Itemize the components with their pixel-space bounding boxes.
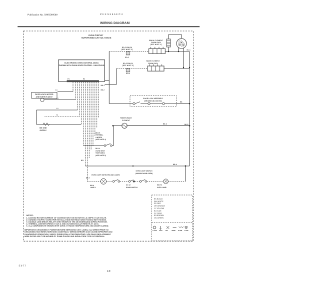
bake element label	[146, 60, 160, 65]
svg-text:WH-70: WH-70	[157, 184, 162, 187]
lamp labels below	[90, 184, 167, 190]
label OVEN CIRCUIT note	[81, 34, 111, 40]
door switch S3	[113, 180, 120, 183]
ground labels	[40, 126, 48, 131]
junction bake-bus	[189, 125, 190, 126]
svg-text:L2: L2	[57, 97, 59, 100]
svg-text:BK-2: BK-2	[101, 88, 105, 91]
svg-text:P1: P1	[68, 78, 70, 81]
svg-text:BR-8: BR-8	[173, 163, 177, 166]
svg-text:(SEE NOTE 3): (SEE NOTE 3)	[121, 48, 133, 51]
svg-text:WIRE RATED 105 C OR HIGHER OF: WIRE RATED 105 C OR HIGHER OF SAME GAUGE…	[25, 235, 106, 238]
svg-text:SUPPLY: SUPPLY	[40, 129, 48, 132]
svg-text:5. ALL COMPONENTS SHOWN WITH O: 5. ALL COMPONENTS SHOWN WITH OVEN AT ROO…	[26, 224, 109, 227]
svg-text:AND SWITCH ASSY: AND SWITCH ASSY	[36, 96, 54, 99]
svg-text:(SEE NOTE 1): (SEE NOTE 1)	[150, 43, 162, 46]
hidden bake element R3	[113, 123, 127, 128]
svg-text:Publication No. 5995599569: Publication No. 5995599569	[28, 14, 59, 17]
oven light switch label	[135, 170, 153, 175]
svg-text:E077: E077	[19, 264, 27, 267]
wire lock to bus	[176, 101, 189, 104]
svg-text:ELEM: ELEM	[178, 229, 183, 232]
wire to lamp 2	[147, 180, 163, 182]
lock motor M1	[41, 98, 45, 102]
wire from U1 right pin to node A	[105, 80, 110, 82]
wire riser node B	[116, 69, 118, 85]
svg-text:L1: L1	[56, 89, 58, 92]
wire fuse bottom	[168, 47, 170, 52]
wire fuse top to motor	[169, 35, 182, 39]
svg-text:RD-15: RD-15	[96, 131, 101, 134]
svg-text:RD-2: RD-2	[125, 56, 129, 59]
wire harness bundle from U1	[73, 82, 99, 181]
junction row2-bus	[189, 67, 190, 68]
svg-text:OVEN LIGHT SWITCH: OVEN LIGHT SWITCH	[136, 170, 153, 173]
svg-text:10: 10	[107, 269, 111, 273]
svg-text:RD-1: RD-1	[101, 84, 105, 87]
svg-text:(SHOWN UNLOCKED): (SHOWN UNLOCKED)	[144, 99, 162, 102]
legend box	[152, 195, 193, 241]
junction BR drop	[185, 165, 186, 166]
connector P1 strip of U1	[67, 80, 99, 82]
dashed diagram border	[24, 31, 194, 241]
lamp DS1	[101, 179, 107, 185]
junction motor-row2	[183, 67, 184, 68]
svg-text:WIRING DIAGRAM: WIRING DIAGRAM	[100, 21, 130, 25]
svg-text:L1: L1	[57, 107, 59, 110]
wire switch to switch	[120, 180, 129, 182]
junction lamp row	[133, 181, 134, 182]
svg-text:OVEN LIGHT SWITCHES AND LAMPS: OVEN LIGHT SWITCHES AND LAMPS	[91, 173, 119, 176]
svg-text:WIRE: WIRE	[172, 229, 176, 232]
wire to door lock	[109, 103, 130, 105]
junction lock-bus	[189, 103, 190, 104]
junction motor-row1	[178, 51, 179, 52]
legend symbol labels	[153, 229, 189, 232]
svg-text:GY-12: GY-12	[126, 184, 131, 187]
lamp DS2	[163, 179, 168, 184]
door switch S3b	[129, 180, 135, 183]
ground lug	[43, 123, 50, 126]
svg-text:SW: SW	[165, 229, 168, 232]
svg-text:BK-6: BK-6	[163, 123, 167, 126]
wire to thermal limiter	[84, 145, 105, 147]
wire riser node A	[108, 52, 110, 104]
wire lamp to switch	[106, 180, 112, 182]
svg-text:WH-9: WH-9	[90, 184, 94, 187]
wire switch to node	[135, 180, 140, 182]
svg-text:GN GREEN: GN GREEN	[154, 217, 164, 220]
svg-text:SUPERVISED 120 VOLT BAKE: SUPERVISED 120 VOLT BAKE	[81, 37, 111, 40]
legend separator	[152, 222, 193, 224]
door lock assembly dashed box	[130, 96, 176, 107]
thermal limiter labels lower	[96, 147, 107, 157]
wire lamp2 to corner	[168, 180, 185, 182]
bake element R2	[148, 64, 165, 71]
svg-text:SHOWN WITH OVEN DOOR CLOSED -: SHOWN WITH OVEN DOOR CLOSED - UNLOCKED	[59, 64, 105, 67]
junction bake node	[112, 125, 113, 126]
ground wire	[37, 124, 82, 126]
hidden bake label	[120, 117, 133, 122]
wire motor lead 1	[178, 48, 180, 52]
svg-text:LAMP: LAMP	[153, 229, 157, 232]
wire bake to bus	[127, 123, 189, 126]
junction fuse-row1	[168, 51, 169, 52]
wire BR run	[85, 165, 189, 167]
svg-text:P2: P2	[83, 77, 85, 80]
wire motor to pin 2	[44, 97, 75, 100]
svg-text:(SEE NOTE 3): (SEE NOTE 3)	[122, 64, 134, 67]
svg-text:GND: GND	[159, 229, 163, 232]
svg-text:BK: BK	[180, 101, 183, 104]
wire motor lead 2	[183, 48, 185, 69]
header rule	[18, 26, 200, 28]
notes list	[26, 217, 109, 228]
svg-text:OVEN CIRCUIT: OVEN CIRCUIT	[88, 34, 104, 37]
broil element label	[149, 39, 164, 46]
svg-text:RD-4: RD-4	[126, 72, 130, 75]
svg-text:BR-7: BR-7	[86, 177, 90, 180]
wire BR corner drop	[185, 166, 187, 181]
important note	[25, 228, 113, 238]
wire L1 supply	[37, 107, 78, 110]
wire from U1 right pin 2	[105, 84, 117, 86]
bus L2	[189, 52, 191, 167]
bake circuit wire row 2	[117, 62, 148, 75]
wire neutral N	[45, 114, 80, 117]
lamp circuit wire	[87, 180, 101, 182]
wire supply drop	[36, 110, 38, 125]
door lock switch S1	[130, 102, 176, 105]
svg-text:PFES365EC4: PFES365EC4	[100, 13, 123, 16]
svg-text:ELECTRONIC OVEN CONTROL (EOC): ELECTRONIC OVEN CONTROL (EOC)	[65, 62, 99, 65]
svg-text:FUSE: FUSE	[184, 229, 188, 232]
wire limiter riser	[113, 126, 115, 146]
junction BR mid	[132, 165, 133, 166]
thermal limiter S2	[104, 144, 113, 147]
broil element R1	[149, 47, 165, 54]
broil circuit wire row 1	[109, 46, 149, 59]
wire L1 from pin 1	[56, 89, 74, 92]
control board U1 (EOC)	[58, 60, 104, 82]
lock motor label box	[32, 92, 58, 98]
svg-text:BR: BR	[81, 159, 84, 162]
legend symbols row	[153, 226, 188, 229]
light switch S4	[140, 180, 147, 183]
thermal limiter labels upper	[96, 131, 107, 141]
svg-text:ELEMENT: ELEMENT	[122, 119, 131, 122]
wire row1 to bus	[165, 51, 189, 53]
thermal fuse F1	[167, 39, 171, 47]
wire row2 to bus	[164, 68, 190, 70]
svg-text:BK-14: BK-14	[96, 147, 101, 150]
oven light label left	[86, 173, 120, 179]
svg-text:BL-1: BL-1	[187, 49, 191, 52]
legend wire colors	[154, 197, 166, 219]
convection motor M2	[177, 39, 187, 49]
